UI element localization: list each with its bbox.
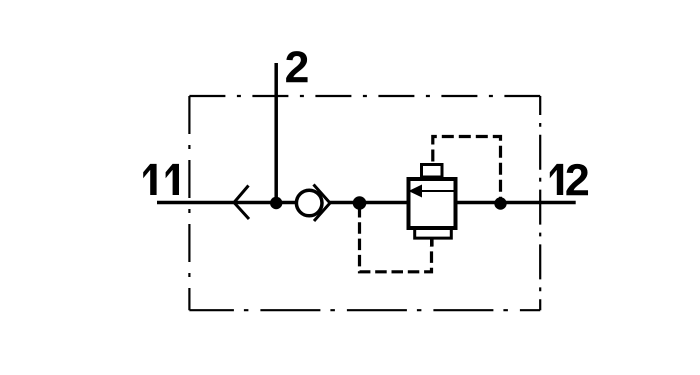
port label 12 <box>550 164 563 195</box>
enclosure border right edge (dash-dot) <box>539 96 541 310</box>
wire main line right segment (regulator to port 12) <box>457 201 576 205</box>
enclosure border bottom edge (dash-dot) <box>189 309 540 311</box>
port label 2 <box>286 51 307 82</box>
enclosure border top edge (dash-dot) <box>189 95 540 97</box>
pilot line bottom (dashed, J2 to bottom stem) <box>360 206 432 272</box>
enclosure border left edge (dash-dot) <box>188 96 190 310</box>
regulator R1 internal arrow shaft <box>421 190 454 192</box>
check valve V1 seat chevron <box>314 185 331 222</box>
pressure regulator R1 body <box>409 179 456 228</box>
junction J3 (pilot return on main line) <box>494 197 506 209</box>
regulator R1 bottom cap <box>415 230 452 239</box>
wire main line left segment (port 11 to check valve) <box>157 201 297 205</box>
regulator R1 bottom stem <box>430 240 434 247</box>
wire port 2 vertical <box>274 63 278 204</box>
port label 11 <box>143 164 156 195</box>
flow direction arrow (chevron at port 11 side) <box>234 186 249 220</box>
wire main line middle segment (check valve to regulator) <box>330 201 408 205</box>
check valve V1 circle <box>296 190 322 216</box>
regulator R1 internal arrow head <box>409 185 423 198</box>
junction J1 (port 2 line on main line) <box>270 197 282 209</box>
junction J2 (pilot branch on main line) <box>353 196 367 210</box>
regulator R1 pilot cap (top) <box>422 165 443 178</box>
pilot line top (dashed, cap to J3) <box>433 137 501 203</box>
